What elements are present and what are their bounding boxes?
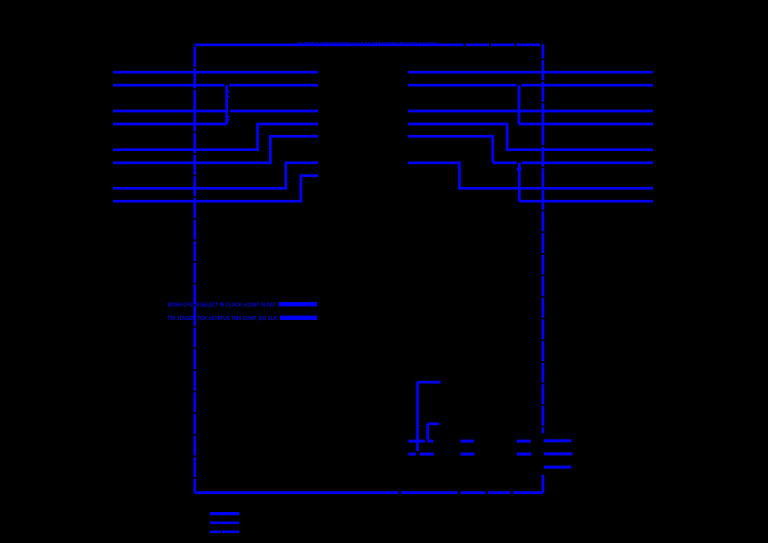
svg-text:MOSI0 CFG IN SELECT IN CLOCK n: MOSI0 CFG IN SELECT IN CLOCK nCONF IN DA…	[168, 303, 276, 309]
wire level-10 right segment	[519, 200, 653, 203]
capacitor C2 bottom plate	[420, 453, 434, 456]
wire L2 (left bus bit 1, gap at tap)	[113, 84, 318, 87]
wire R1 (right bus bit 0)	[408, 71, 653, 74]
IC U1 outline right edge lower	[542, 475, 545, 493]
wire R3 (right bus bit 2)	[408, 110, 653, 113]
IC U1 outline right edge upper	[542, 45, 545, 433]
capacitor C2 top plate	[428, 440, 434, 443]
wire R5 staircase down to level 7 (gap at tap2)	[408, 136, 653, 163]
wire L7 staircase up to level 7	[113, 163, 318, 189]
wire L6 staircase up to level 5	[113, 136, 318, 163]
capacitor C1 bottom plate	[408, 453, 416, 456]
ground symbol bar 2	[210, 522, 239, 525]
wire L1 (left bus bit 0)	[113, 71, 318, 74]
bus tap2 from level 7 down to level 10	[518, 163, 521, 201]
power pin bar 1 at right edge	[544, 439, 571, 442]
IC U1 outline top edge	[195, 43, 440, 46]
capacitor C4 bottom plate	[517, 453, 532, 456]
power pin bar 3 at right edge	[544, 466, 571, 469]
svg-text:TDI JTAGEN TCK nSTATUS TMS CON: TDI JTAGEN TCK nSTATUS TMS CONF_DO CLK	[168, 316, 279, 322]
wire stub to capacitor C2	[428, 424, 440, 440]
bus tap from R2 down to level 4	[518, 85, 521, 124]
wire L3 (left bus bit 2)	[113, 110, 318, 113]
wire L8 staircase up to level 8	[113, 176, 318, 202]
wire R2 (right bus bit 1, gap at tap)	[408, 84, 653, 87]
net label value row 1	[279, 302, 318, 306]
ground symbol bar 1	[210, 512, 239, 515]
wire L5 staircase up to level 4	[113, 124, 318, 150]
wire to bypass caps (vertical VCC drop)	[416, 382, 419, 451]
wire level-4 right segment	[519, 123, 653, 126]
capacitor C1 top plate	[408, 440, 425, 443]
svg-text:ALTERA EPM7128SLC84-15 MAX7000: ALTERA EPM7128SLC84-15 MAX7000 PLCC84 U1…	[297, 42, 436, 48]
capacitor C4 top plate	[517, 440, 531, 443]
capacitor C3 top plate	[460, 440, 474, 443]
net label value row 2	[280, 316, 317, 320]
IC U1 outline left edge	[193, 45, 196, 493]
power pin bar 2 at right edge	[544, 452, 573, 455]
pin number marks on tap	[228, 91, 230, 121]
IC U1 outline bottom edge	[195, 491, 543, 494]
ground symbol bar 3	[210, 531, 239, 534]
wire stub at cap area top	[418, 381, 441, 384]
junction arrow at tap2 top	[516, 163, 522, 170]
wire L4 (left bus bit 3, ends at tap)	[113, 123, 227, 126]
bus tap from L2 down to L4	[225, 85, 228, 124]
wire R4 staircase down to level 6	[408, 124, 653, 150]
wire R6 staircase down to level 9	[408, 163, 653, 189]
capacitor C3 bottom plate	[460, 453, 474, 456]
